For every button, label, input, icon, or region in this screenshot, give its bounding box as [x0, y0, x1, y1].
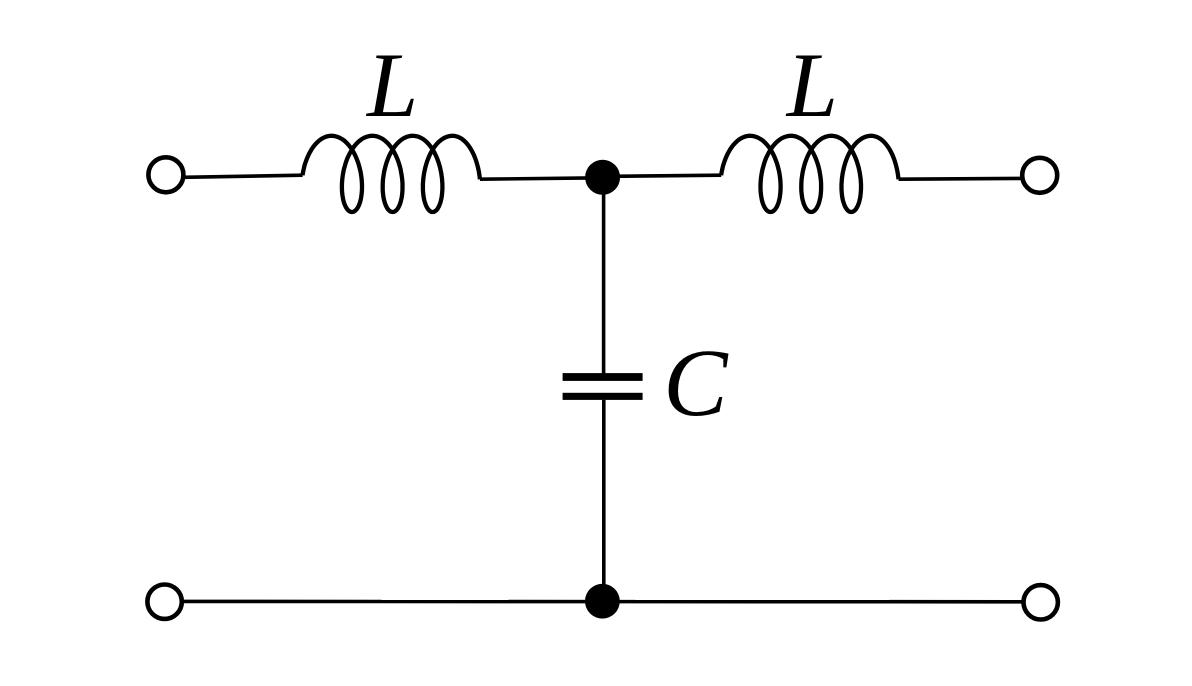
inductor L2 coil [721, 136, 898, 212]
inductor L1 coil [303, 136, 480, 212]
terminal (open circle) top-right [1022, 158, 1057, 193]
bottom rail wire [182, 600, 1023, 604]
terminal (open circle) bottom-left [147, 585, 181, 619]
wire top-left terminal to inductor L1 [183, 175, 302, 177]
wire inductor L1 to node A [480, 178, 603, 179]
wire node A down to capacitor C [602, 177, 606, 374]
node A junction dot [585, 160, 620, 195]
wire capacitor C down to node B [602, 400, 606, 601]
node B junction dot [585, 584, 620, 619]
wire node A to inductor L2 [603, 175, 722, 176]
svg-text:L: L [785, 34, 838, 136]
capacitor C bottom plate [563, 393, 643, 400]
capacitor C top plate [563, 373, 643, 381]
wire inductor L2 to top-right terminal [899, 177, 1023, 181]
terminal (open circle) top-left [148, 157, 183, 192]
terminal (open circle) bottom-right [1023, 585, 1057, 619]
svg-text:C: C [663, 329, 729, 436]
svg-text:L: L [365, 34, 418, 136]
